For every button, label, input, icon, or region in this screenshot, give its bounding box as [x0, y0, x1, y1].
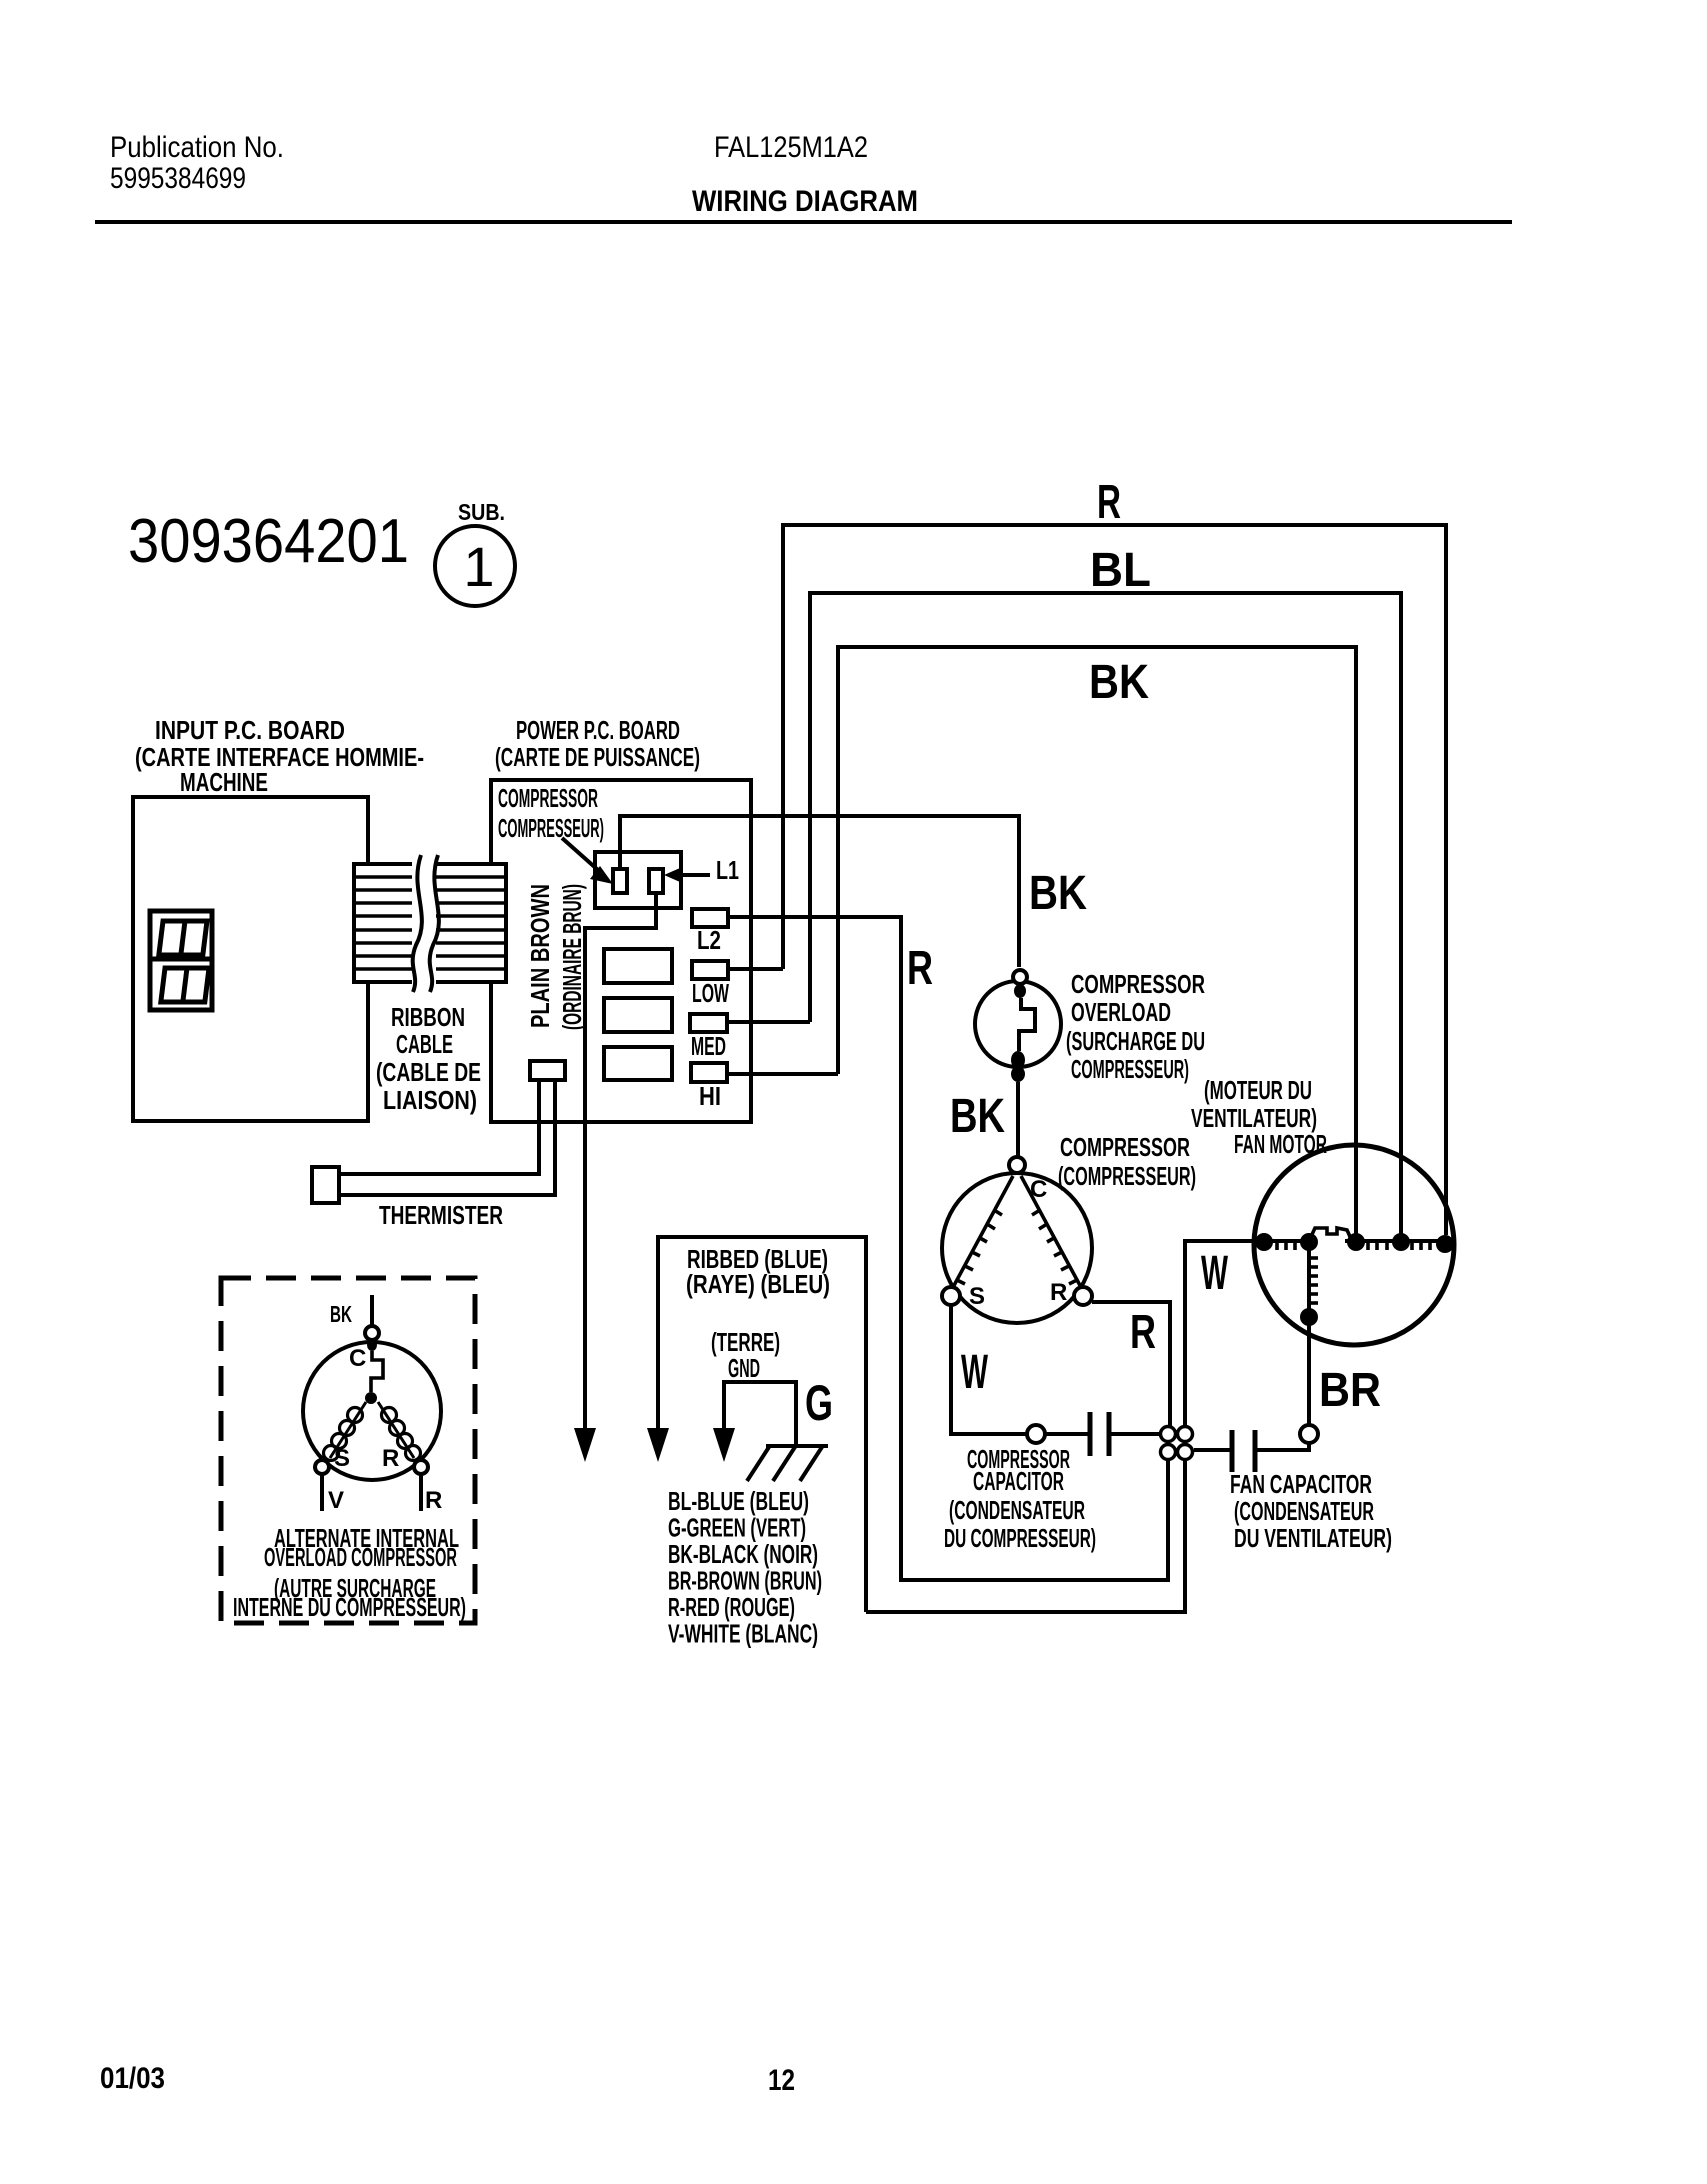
- svg-text:INPUT P.C. BOARD: INPUT P.C. BOARD: [155, 715, 345, 745]
- svg-text:PLAIN BROWN: PLAIN BROWN: [525, 884, 555, 1028]
- ribbed blue wire loop with arrow: [647, 1237, 866, 1612]
- svg-text:(CABLE DE: (CABLE DE: [376, 1057, 481, 1087]
- input p.c. board outline: [133, 797, 368, 1121]
- ribbon cable: [354, 854, 506, 992]
- svg-text:R: R: [425, 1487, 442, 1514]
- svg-text:01/03: 01/03: [100, 2062, 165, 2095]
- header horizontal rule: [95, 220, 1512, 224]
- L1 label and arrow: [664, 855, 739, 885]
- svg-text:BK: BK: [1029, 867, 1087, 920]
- alt compressor body: [303, 1339, 441, 1480]
- fan capacitor label: [1230, 1469, 1392, 1553]
- alt wire V: [322, 1474, 344, 1514]
- relay box 1 on power board: [604, 949, 672, 983]
- svg-text:(MOTEUR DU: (MOTEUR DU: [1204, 1075, 1312, 1105]
- relay box 2 on power board: [604, 998, 672, 1032]
- thermister label: [379, 1200, 503, 1230]
- wire from terminal LOW to R loop: [728, 967, 783, 971]
- fan capacitor: [1194, 1425, 1318, 1472]
- display icon on input board: [150, 911, 212, 1010]
- wire R from terminal L2 to junction: [728, 917, 1168, 1580]
- junction connector circles: [1161, 1427, 1193, 1460]
- svg-text:FAL125M1A2: FAL125M1A2: [714, 131, 868, 164]
- footer date: [100, 2062, 165, 2095]
- svg-text:Publication No.: Publication No.: [110, 131, 284, 164]
- svg-text:CABLE: CABLE: [396, 1029, 453, 1059]
- svg-text:COMPRESSOR: COMPRESSOR: [1071, 969, 1205, 999]
- svg-text:BL: BL: [1090, 544, 1151, 597]
- terminal L2: [692, 909, 728, 955]
- input p.c. board label: [135, 715, 424, 797]
- svg-text:V: V: [328, 1487, 344, 1514]
- svg-text:BK: BK: [950, 1090, 1005, 1143]
- header title WIRING DIAGRAM: [692, 185, 918, 218]
- alt compressor terminal R: [414, 1460, 428, 1474]
- svg-text:(CARTE INTERFACE HOMMIE-: (CARTE INTERFACE HOMMIE-: [135, 742, 424, 772]
- svg-text:FAN CAPACITOR: FAN CAPACITOR: [1230, 1469, 1372, 1499]
- svg-text:(SURCHARGE DU: (SURCHARGE DU: [1066, 1026, 1205, 1056]
- compressor terminal R: [1074, 1287, 1092, 1305]
- svg-text:W: W: [1201, 1247, 1228, 1300]
- svg-text:GND: GND: [728, 1353, 760, 1383]
- svg-text:OVERLOAD COMPRESSOR: OVERLOAD COMPRESSOR: [264, 1542, 457, 1572]
- svg-text:R: R: [382, 1445, 399, 1472]
- svg-text:L2: L2: [697, 925, 721, 955]
- fan motor winding taps: [1255, 1233, 1273, 1251]
- arrow from compressor label to connector pin: [562, 838, 613, 884]
- alt compressor overload zigzag: [365, 1351, 383, 1404]
- svg-text:COMPRESSOR: COMPRESSOR: [1060, 1132, 1190, 1162]
- alternate overload label: [233, 1523, 466, 1622]
- svg-text:BK: BK: [1089, 656, 1149, 709]
- alt wire R: [421, 1474, 442, 1514]
- alt compressor terminal S: [315, 1460, 329, 1474]
- label G: [805, 1375, 833, 1431]
- fan motor body: [1254, 1145, 1454, 1345]
- svg-text:INTERNE DU COMPRESSEUR): INTERNE DU COMPRESSEUR): [233, 1592, 466, 1622]
- fan motor main winding: [1256, 1228, 1452, 1250]
- svg-text:MED: MED: [691, 1031, 726, 1061]
- wire W from fan motor to junction: [1185, 1241, 1256, 1426]
- wire loop R from fan motor: [783, 525, 1446, 1235]
- ground labels: [711, 1327, 780, 1383]
- alt label BK: [330, 1301, 352, 1327]
- power p.c. board label: [495, 715, 700, 772]
- thermister wire upper: [339, 1080, 539, 1174]
- svg-text:DU COMPRESSEUR): DU COMPRESSEUR): [944, 1523, 1096, 1553]
- wire loop BL from fan motor: [810, 593, 1401, 1235]
- svg-text:LIAISON): LIAISON): [383, 1085, 477, 1115]
- svg-text:(ORDINAIRE BRUN): (ORDINAIRE BRUN): [557, 884, 587, 1030]
- svg-text:W: W: [961, 1346, 988, 1399]
- svg-text:(CONDENSATEUR: (CONDENSATEUR: [949, 1495, 1085, 1525]
- compressor connector label on power board: [498, 783, 604, 843]
- svg-text:BL-BLUE (BLEU): BL-BLUE (BLEU): [668, 1486, 809, 1516]
- label R mid: [907, 942, 933, 995]
- svg-text:SUB.: SUB.: [458, 499, 505, 525]
- fan motor auxiliary winding: [1300, 1249, 1318, 1326]
- label W fan: [1201, 1247, 1228, 1300]
- svg-text:BR-BROWN (BRUN): BR-BROWN (BRUN): [668, 1566, 822, 1596]
- compressor terminal S: [942, 1287, 960, 1305]
- wire from junction down to ribbed loop: [866, 1460, 1185, 1612]
- svg-text:MACHINE: MACHINE: [180, 767, 268, 797]
- svg-text:COMPRESSEUR): COMPRESSEUR): [498, 813, 604, 843]
- SUB. label: [458, 499, 505, 525]
- wire from pin2 L1 down with arrow: [574, 893, 656, 1462]
- ribbon cable break wave left: [413, 855, 422, 992]
- svg-text:R: R: [1050, 1279, 1067, 1306]
- svg-text:(CONDENSATEUR: (CONDENSATEUR: [1234, 1496, 1374, 1526]
- wire R from compressor R terminal to junction: [1092, 1302, 1170, 1426]
- wire W from compressor S terminal: [951, 1305, 1026, 1434]
- header model number FAL125M1A2: [714, 131, 868, 164]
- ground wire with arrow: [713, 1382, 796, 1462]
- wire BK from pin1 to compressor overload: [620, 816, 1019, 967]
- svg-text:R: R: [1097, 476, 1121, 529]
- svg-text:OVERLOAD: OVERLOAD: [1071, 997, 1171, 1027]
- sub revision circle 1: [435, 526, 515, 606]
- svg-text:1: 1: [463, 535, 494, 598]
- ground symbol: [747, 1446, 828, 1481]
- label BK mid: [1029, 867, 1087, 920]
- label R top: [1097, 476, 1121, 529]
- svg-text:BK: BK: [330, 1301, 352, 1327]
- svg-text:309364201: 309364201: [128, 507, 409, 576]
- compressor body: [942, 1157, 1092, 1323]
- svg-text:R-RED (ROUGE): R-RED (ROUGE): [668, 1592, 795, 1622]
- svg-text:THERMISTER: THERMISTER: [379, 1200, 503, 1230]
- terminal MED: [690, 1014, 727, 1061]
- label R near compressor: [1130, 1306, 1156, 1359]
- svg-text:12: 12: [768, 2064, 795, 2097]
- plain brown connector on power board: [530, 1061, 565, 1080]
- connector pin 1: [613, 869, 627, 893]
- terminal LOW: [692, 961, 729, 1008]
- wire loop BK from fan motor: [838, 647, 1356, 1235]
- svg-text:COMPRESSOR: COMPRESSOR: [498, 783, 598, 813]
- wire color legend: [668, 1486, 822, 1649]
- part number 309364201: [128, 507, 409, 576]
- compressor run winding: [1021, 1176, 1083, 1291]
- alt compressor wire BK: [370, 1295, 374, 1326]
- relay box 3 on power board: [604, 1047, 672, 1080]
- label BK: [1089, 656, 1149, 709]
- wire BR from fan motor: [1307, 1325, 1311, 1425]
- ribbon cable break wave right: [430, 855, 439, 992]
- fan motor label: [1191, 1075, 1327, 1159]
- svg-text:DU VENTILATEUR): DU VENTILATEUR): [1234, 1523, 1392, 1553]
- wire from terminal MED to BL loop: [727, 1020, 810, 1024]
- compressor start winding: [951, 1176, 1013, 1291]
- header publication number text: [110, 131, 284, 195]
- svg-text:5995384699: 5995384699: [110, 162, 246, 195]
- svg-text:R: R: [1130, 1306, 1156, 1359]
- svg-text:(CARTE DE PUISSANCE): (CARTE DE PUISSANCE): [495, 742, 700, 772]
- svg-text:CAPACITOR: CAPACITOR: [973, 1466, 1064, 1496]
- alt compressor start winding coil: [324, 1402, 367, 1461]
- svg-text:S: S: [969, 1283, 985, 1310]
- compressor overload label: [1066, 969, 1205, 1084]
- svg-text:HI: HI: [699, 1081, 721, 1111]
- wire from terminal HI to BK loop: [727, 1072, 838, 1076]
- alternate overload dashed box: [221, 1278, 475, 1623]
- ribbed blue label: [686, 1244, 830, 1299]
- label W compressor: [961, 1346, 988, 1399]
- svg-text:BK-BLACK (NOIR): BK-BLACK (NOIR): [668, 1539, 818, 1569]
- svg-text:LOW: LOW: [692, 978, 729, 1008]
- svg-text:(RAYE) (BLEU): (RAYE) (BLEU): [686, 1269, 830, 1299]
- wire BK overload to compressor: [1016, 1082, 1020, 1156]
- svg-text:C: C: [349, 1345, 366, 1372]
- terminal HI: [691, 1063, 727, 1111]
- label BK lower: [950, 1090, 1005, 1143]
- alt compressor terminal C: [365, 1326, 379, 1340]
- svg-text:BR: BR: [1319, 1364, 1381, 1417]
- footer page number: [768, 2064, 795, 2097]
- svg-text:COMPRESSEUR): COMPRESSEUR): [1071, 1054, 1189, 1084]
- power p.c. board outline: [491, 780, 751, 1122]
- svg-text:(COMPRESSEUR): (COMPRESSEUR): [1058, 1161, 1196, 1191]
- ribbon cable label: [376, 1002, 481, 1115]
- svg-text:L1: L1: [716, 855, 739, 885]
- svg-text:RIBBON: RIBBON: [391, 1002, 465, 1032]
- plain brown rotated label: [525, 884, 587, 1030]
- svg-text:POWER P.C. BOARD: POWER P.C. BOARD: [516, 715, 680, 745]
- label BR: [1319, 1364, 1381, 1417]
- svg-text:R: R: [907, 942, 933, 995]
- connector pin 2 L1: [649, 869, 663, 893]
- thermister body: [312, 1167, 339, 1203]
- compressor capacitor label: [944, 1444, 1096, 1553]
- compressor label: [1058, 1132, 1196, 1191]
- svg-text:WIRING DIAGRAM: WIRING DIAGRAM: [692, 185, 918, 218]
- svg-text:G-GREEN (VERT): G-GREEN (VERT): [668, 1513, 806, 1543]
- compressor overload body: [975, 970, 1061, 1082]
- label BL: [1090, 544, 1151, 597]
- thermister wire lower: [339, 1080, 555, 1195]
- svg-text:G: G: [805, 1375, 833, 1431]
- compressor capacitor: [1027, 1412, 1160, 1456]
- compressor connector box: [595, 852, 681, 908]
- alt compressor run winding coil: [378, 1402, 421, 1461]
- svg-text:V-WHITE (BLANC): V-WHITE (BLANC): [668, 1619, 818, 1649]
